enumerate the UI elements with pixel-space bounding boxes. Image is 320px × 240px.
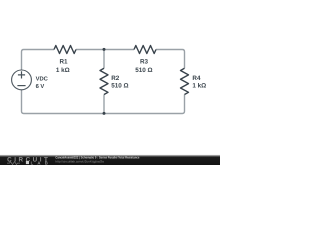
node B junction dot bbox=[103, 112, 106, 115]
node A junction dot bbox=[103, 48, 106, 51]
resistor R1 bbox=[54, 46, 76, 54]
wire R2 bottom to bottom rail bbox=[103, 95, 105, 114]
wire bottom rail node B to source bbox=[22, 90, 105, 114]
svg-text:510 Ω: 510 Ω bbox=[111, 83, 128, 90]
logo resistor zigzag bbox=[7, 162, 20, 165]
svg-text:6 V: 6 V bbox=[36, 83, 45, 90]
svg-text:1 kΩ: 1 kΩ bbox=[192, 83, 206, 90]
svg-text:510 Ω: 510 Ω bbox=[135, 67, 152, 74]
resistor R3 bbox=[134, 46, 156, 54]
resistor R4 bbox=[181, 68, 189, 94]
svg-text:LAB: LAB bbox=[31, 160, 48, 165]
svg-text:VDC: VDC bbox=[36, 75, 49, 82]
voltage source plus sign bbox=[18, 71, 25, 78]
svg-text:R4: R4 bbox=[192, 75, 201, 82]
wire R4 bottom to bottom-right corner to node B bbox=[104, 95, 185, 114]
wire R3 to top-right corner to R4 bbox=[156, 50, 185, 69]
wire node A down to R2 bbox=[103, 50, 105, 69]
voltage source V1 circle bbox=[12, 70, 32, 90]
resistor R2 bbox=[100, 68, 108, 94]
svg-text:1 kΩ: 1 kΩ bbox=[56, 67, 70, 74]
wire top-left from source to R1 bbox=[22, 50, 55, 71]
logo block bbox=[26, 161, 29, 164]
svg-text:R2: R2 bbox=[111, 75, 120, 82]
svg-text:R1: R1 bbox=[59, 59, 68, 66]
wire R1 to R3 through node A bbox=[76, 49, 134, 51]
svg-text:http://circuitlab.com/c/2ux45j: http://circuitlab.com/c/2ux45jg5ad3a bbox=[55, 159, 104, 163]
svg-text:R3: R3 bbox=[140, 59, 149, 66]
voltage source minus sign bbox=[17, 85, 25, 87]
